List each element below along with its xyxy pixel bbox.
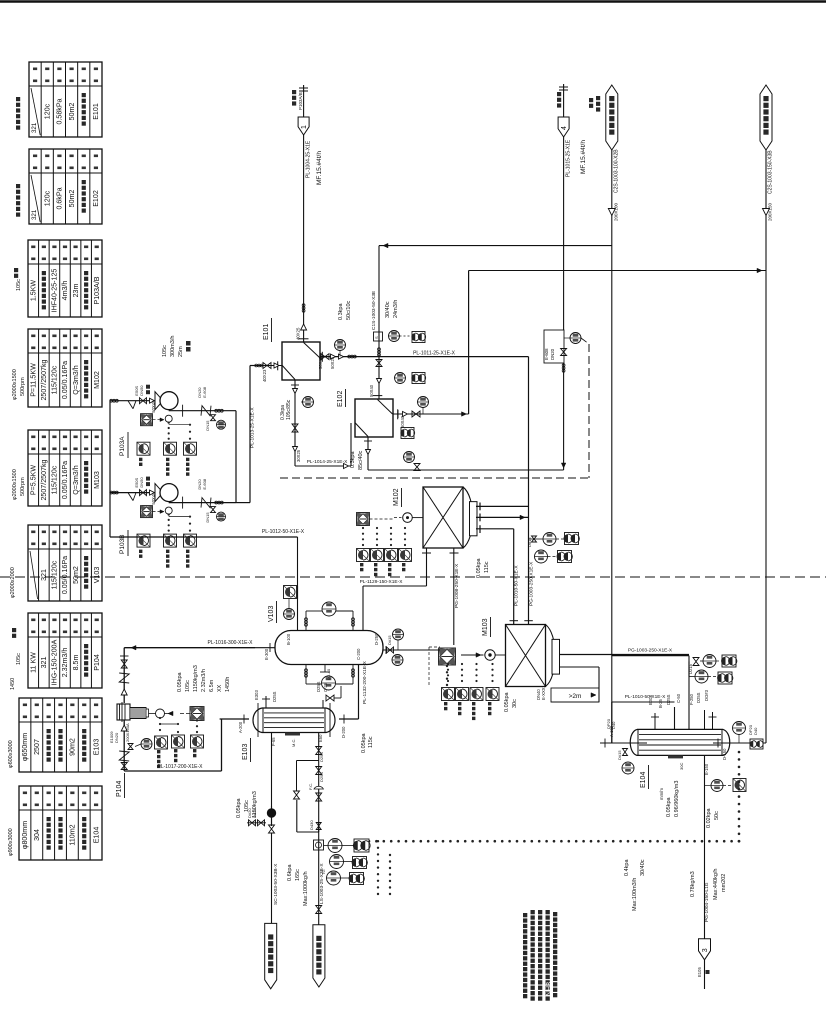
- svg-text:E102: E102: [337, 391, 344, 407]
- svg-text:0.05/0.16Pa: 0.05/0.16Pa: [61, 461, 69, 499]
- svg-text:D-150: D-150: [722, 748, 727, 760]
- svg-text:D#15: D#15: [617, 750, 622, 760]
- svg-text:F-250: F-250: [689, 693, 694, 705]
- svg-text:85c/40c: 85c/40c: [358, 450, 364, 470]
- svg-text:321: 321: [31, 122, 38, 133]
- svg-text:1150kg/m3: 1150kg/m3: [193, 665, 199, 692]
- svg-text:φ900x3000: φ900x3000: [8, 828, 14, 856]
- svg-text:200X150: 200X150: [768, 202, 773, 221]
- svg-text:DN15: DN15: [205, 512, 210, 523]
- svg-text:0.05kpa: 0.05kpa: [177, 671, 183, 692]
- svg-text:PG-1003-250-X1E-X: PG-1003-250-X1E-X: [529, 561, 535, 606]
- svg-text:115/120c: 115/120c: [51, 365, 59, 394]
- svg-text:0.05kpa: 0.05kpa: [476, 557, 482, 578]
- svg-text:MF.15.#4t/h: MF.15.#4t/h: [580, 140, 587, 174]
- svg-text:P103A/B: P103A/B: [93, 276, 101, 304]
- svg-text:E-300: E-300: [264, 648, 269, 660]
- svg-text:DN20: DN20: [114, 732, 119, 743]
- svg-text:3: 3: [702, 948, 709, 952]
- svg-text:0.3kpa: 0.3kpa: [350, 451, 356, 468]
- svg-text:E102: E102: [92, 190, 100, 207]
- svg-text:D-200: D-200: [341, 726, 346, 738]
- svg-text:F.C.: F.C.: [308, 783, 313, 790]
- svg-text:6.5m: 6.5m: [209, 679, 215, 692]
- svg-text:0.58kPa: 0.58kPa: [56, 98, 64, 124]
- svg-text:E105: E105: [697, 967, 702, 977]
- svg-text:1.5KW: 1.5KW: [29, 280, 37, 302]
- svg-text:0.05/0.16Pa: 0.05/0.16Pa: [61, 361, 69, 399]
- svg-text:165c: 165c: [295, 869, 301, 881]
- svg-text:40X23: 40X23: [262, 369, 267, 382]
- svg-text:Q=3m3/h: Q=3m3/h: [72, 465, 80, 494]
- svg-text:φ2000x1500: φ2000x1500: [12, 369, 18, 400]
- svg-text:30X25: 30X25: [296, 449, 301, 462]
- svg-text:C2S-1003-150-X3B: C2S-1003-150-X3B: [768, 150, 774, 194]
- svg-text:E104: E104: [92, 827, 100, 844]
- svg-text:XX: XX: [217, 684, 223, 692]
- svg-text:mm202: mm202: [721, 874, 727, 892]
- svg-text:D25S: D25S: [316, 681, 321, 692]
- svg-text:105c: 105c: [16, 279, 22, 291]
- svg-text:1: 1: [301, 125, 308, 129]
- svg-text:PL-1129-150-X1E-X: PL-1129-150-X1E-X: [360, 579, 404, 585]
- svg-text:E104: E104: [640, 772, 647, 788]
- svg-text:C-25: C-25: [323, 682, 328, 692]
- svg-text:0.05kpa: 0.05kpa: [504, 691, 510, 712]
- svg-text:D25S: D25S: [319, 772, 324, 782]
- svg-text:304: 304: [33, 829, 41, 841]
- svg-text:11 KW: 11 KW: [29, 652, 37, 673]
- svg-text:30/40c: 30/40c: [640, 859, 646, 876]
- svg-text:8.5m: 8.5m: [72, 655, 80, 671]
- svg-text:PL-1014-25-X1E-X: PL-1014-25-X1E-X: [307, 459, 348, 465]
- svg-text:NH3: NH3: [546, 982, 553, 996]
- svg-text:E-608: E-608: [202, 478, 207, 489]
- svg-text:PL-1132-200-X1E-X: PL-1132-200-X1E-X: [362, 660, 368, 704]
- svg-text:IHF40-25-125: IHF40-25-125: [51, 269, 59, 313]
- svg-text:0.3kpa: 0.3kpa: [280, 405, 286, 420]
- svg-text:24m3/h: 24m3/h: [393, 300, 399, 318]
- svg-text:40X25: 40X25: [296, 327, 301, 340]
- svg-text:E103: E103: [242, 744, 249, 760]
- svg-text:Q=3m3/h: Q=3m3/h: [72, 365, 80, 394]
- svg-text:0.6kpa: 0.6kpa: [287, 864, 293, 881]
- svg-text:mm/m: mm/m: [659, 788, 664, 800]
- svg-text:1450: 1450: [10, 678, 16, 690]
- svg-text:C-200: C-200: [356, 648, 361, 660]
- svg-text:105c: 105c: [185, 680, 191, 692]
- svg-text:MF.15.#4t/h: MF.15.#4t/h: [316, 151, 323, 185]
- svg-text:>2m: >2m: [569, 693, 582, 700]
- svg-text:50m2: 50m2: [72, 566, 80, 584]
- svg-text:2.32m3/h: 2.32m3/h: [201, 669, 207, 692]
- svg-text:LS-1003-25-X3B-X: LS-1003-25-X3B-X: [319, 863, 325, 904]
- svg-text:PL-1015-25-X1E: PL-1015-25-X1E: [566, 139, 572, 177]
- svg-text:M102: M102: [393, 488, 400, 506]
- svg-text:90m2: 90m2: [69, 738, 77, 756]
- svg-text:120c: 120c: [43, 103, 51, 119]
- svg-text:105c/85c: 105c/85c: [286, 399, 292, 420]
- svg-text:E-150: E-150: [704, 763, 709, 775]
- svg-text:321: 321: [40, 657, 48, 669]
- svg-text:V103: V103: [268, 606, 275, 622]
- svg-text:M.C.: M.C.: [291, 739, 296, 747]
- svg-text:DN15: DN15: [205, 420, 210, 431]
- svg-text:V103: V103: [93, 567, 101, 584]
- svg-text:P104: P104: [116, 781, 123, 797]
- svg-text:TG: TG: [321, 869, 326, 875]
- svg-text:D#20: D#20: [252, 808, 257, 818]
- svg-text:200X150A: 200X150A: [125, 723, 130, 742]
- svg-text:DN20: DN20: [550, 348, 555, 360]
- svg-text:C1S-1003-50-X3E: C1S-1003-50-X3E: [371, 291, 377, 330]
- svg-text:S: S: [374, 336, 379, 339]
- svg-text:0.05kpa: 0.05kpa: [666, 796, 672, 817]
- svg-text:PL-1017-200-X1E-X: PL-1017-200-X1E-X: [157, 764, 203, 770]
- svg-text:2.32m3/h: 2.32m3/h: [61, 648, 69, 678]
- svg-text:115c: 115c: [368, 736, 374, 748]
- svg-text:E101: E101: [92, 103, 100, 120]
- svg-text:LG-40: LG-40: [326, 668, 331, 680]
- svg-text:D#15: D#15: [387, 635, 392, 645]
- svg-text:115c: 115c: [484, 561, 490, 573]
- svg-text:PL-1004-25-X1E: PL-1004-25-X1E: [306, 140, 312, 178]
- svg-text:C-50: C-50: [676, 693, 681, 703]
- svg-text:D25S: D25S: [666, 694, 671, 705]
- svg-text:500rpm: 500rpm: [20, 377, 26, 396]
- svg-text:105c: 105c: [162, 345, 168, 357]
- svg-text:0.6kPa: 0.6kPa: [56, 187, 64, 209]
- svg-text:0.4kpa: 0.4kpa: [624, 859, 630, 876]
- svg-text:120c: 120c: [43, 190, 51, 206]
- svg-text:D40: D40: [753, 727, 758, 735]
- svg-text:0.05kpa: 0.05kpa: [236, 797, 242, 818]
- svg-text:30C: 30C: [679, 763, 684, 770]
- svg-text:D40: D40: [611, 721, 616, 729]
- svg-text:50X40: 50X40: [400, 415, 405, 428]
- svg-text:E303: E303: [254, 690, 259, 700]
- svg-text:P=5.5KW: P=5.5KW: [29, 465, 37, 495]
- svg-text:φ2000x1500: φ2000x1500: [12, 469, 18, 500]
- svg-text:A-200: A-200: [238, 721, 243, 733]
- svg-text:PL-1013-25-X1E-X: PL-1013-25-X1E-X: [250, 407, 256, 448]
- svg-text:PL-1010-50-X1E-X: PL-1010-50-X1E-X: [625, 694, 666, 700]
- svg-text:50X40: 50X40: [369, 384, 374, 397]
- svg-text:E103: E103: [92, 739, 100, 756]
- svg-text:E101: E101: [263, 324, 270, 340]
- svg-text:110m2: 110m2: [69, 824, 77, 845]
- svg-text:4m3/h: 4m3/h: [61, 281, 69, 301]
- svg-text:105c: 105c: [16, 653, 22, 665]
- svg-text:Max:1000kg/h: Max:1000kg/h: [303, 871, 309, 906]
- svg-text:321: 321: [40, 569, 48, 581]
- svg-text:D25S: D25S: [696, 692, 701, 703]
- svg-text:50X25: 50X25: [330, 356, 335, 369]
- svg-text:E-608: E-608: [544, 348, 549, 360]
- svg-text:2507: 2507: [33, 739, 41, 755]
- svg-text:φ650mm: φ650mm: [21, 733, 29, 761]
- svg-text:30c: 30c: [512, 699, 518, 708]
- svg-text:PL-1011-25-X1E-X: PL-1011-25-X1E-X: [413, 351, 456, 357]
- svg-text:PL-1012-50-X1E-X: PL-1012-50-X1E-X: [262, 529, 305, 535]
- svg-text:30/40c: 30/40c: [385, 301, 391, 318]
- svg-text:DO#3: DO#3: [704, 689, 709, 701]
- svg-text:115/120c: 115/120c: [51, 560, 59, 589]
- svg-text:2507/2507kg: 2507/2507kg: [40, 359, 48, 400]
- svg-text:50c: 50c: [714, 811, 720, 820]
- svg-text:SC-1003-50-X3B-X: SC-1003-50-X3B-X: [273, 863, 279, 905]
- svg-text:IHG-150-200A: IHG-150-200A: [51, 639, 59, 685]
- svg-text:1450h: 1450h: [225, 677, 231, 692]
- svg-text:P=11.5KW: P=11.5KW: [29, 363, 37, 397]
- svg-text:23m: 23m: [72, 284, 80, 298]
- svg-text:115/120c: 115/120c: [51, 465, 59, 494]
- svg-text:50X40: 50X40: [318, 356, 323, 369]
- svg-text:D25S: D25S: [319, 752, 324, 762]
- svg-text:321: 321: [31, 209, 38, 220]
- svg-text:PG-1003-250-X1E-X: PG-1003-250-X1E-X: [628, 648, 673, 654]
- svg-text:C2S-1003-100-X2B: C2S-1003-100-X2B: [614, 149, 620, 193]
- svg-text:50m2: 50m2: [68, 103, 76, 121]
- svg-text:200X100: 200X100: [614, 202, 619, 221]
- svg-text:D430: D430: [309, 820, 314, 830]
- svg-text:P103A/B: P103A/B: [298, 92, 303, 110]
- svg-text:E-608: E-608: [202, 386, 207, 397]
- svg-text:4: 4: [561, 126, 568, 130]
- svg-text:φ600x3000: φ600x3000: [8, 740, 14, 768]
- svg-text:φ2000x2000: φ2000x2000: [10, 567, 16, 598]
- svg-text:0.96/960kg/m3: 0.96/960kg/m3: [674, 781, 680, 817]
- svg-text:D25S: D25S: [272, 691, 277, 702]
- svg-text:D-250: D-250: [374, 633, 379, 645]
- svg-text:M102: M102: [93, 371, 101, 389]
- svg-text:25m: 25m: [178, 346, 184, 357]
- svg-text:2507/2507kg: 2507/2507kg: [40, 459, 48, 500]
- svg-text:0.05/0.16Pa: 0.05/0.16Pa: [61, 556, 69, 594]
- svg-text:0.02kpa: 0.02kpa: [706, 807, 712, 828]
- svg-text:0.05kpa: 0.05kpa: [361, 732, 367, 753]
- svg-text:P103A: P103A: [119, 436, 126, 456]
- svg-text:0.78kg/m3: 0.78kg/m3: [690, 871, 696, 897]
- svg-text:φ800mm: φ800mm: [21, 821, 29, 849]
- svg-text:0.3kpa: 0.3kpa: [338, 303, 344, 320]
- svg-text:P104: P104: [93, 654, 101, 671]
- svg-text:50m2: 50m2: [68, 190, 76, 208]
- svg-text:PL-1010-50-X1E-X: PL-1010-50-X1E-X: [514, 565, 520, 606]
- svg-text:300m3/h: 300m3/h: [170, 336, 176, 357]
- svg-text:D#15: D#15: [527, 537, 532, 547]
- svg-text:PG-1004-150-L1G: PG-1004-150-L1G: [704, 882, 710, 922]
- svg-text:B-100: B-100: [286, 633, 291, 645]
- svg-text:PL-1016-300-X1E-X: PL-1016-300-X1E-X: [207, 640, 253, 646]
- svg-text:DN50: DN50: [139, 477, 144, 488]
- svg-text:M103: M103: [93, 471, 101, 489]
- svg-text:Max:100m3/h: Max:100m3/h: [632, 878, 638, 911]
- svg-text:DN50: DN50: [139, 385, 144, 396]
- svg-text:M103: M103: [482, 618, 489, 636]
- svg-text:PG-1008-250-X1E-X: PG-1008-250-X1E-X: [454, 563, 460, 608]
- svg-text:F-65: F-65: [271, 737, 276, 746]
- svg-text:E50: E50: [318, 734, 323, 742]
- svg-text:Max:440kg/h: Max:440kg/h: [713, 869, 719, 901]
- svg-text:500rpm: 500rpm: [20, 477, 26, 496]
- svg-text:50c/10c: 50c/10c: [346, 300, 352, 320]
- svg-text:E-XXX: E-XXX: [541, 687, 546, 700]
